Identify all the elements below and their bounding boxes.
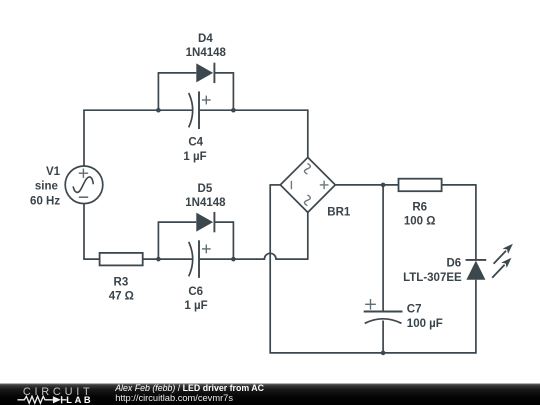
wire D4 branch left vertical: [157, 73, 159, 110]
wire D5 branch top right: [214, 221, 233, 223]
wire down to bridge top corner: [307, 109, 309, 157]
wire D5 branch left vertical: [157, 222, 159, 259]
wire D5 branch top left: [158, 221, 197, 223]
resistor R3: [100, 253, 143, 266]
svg-text:60 Hz: 60 Hz: [30, 196, 60, 208]
BR1 plus mark right: [320, 181, 329, 190]
junction node top-left: [156, 108, 161, 113]
wire LED down to rail: [475, 280, 477, 354]
wire minus vertical down: [269, 184, 271, 353]
wire R3 to C6 left plate: [143, 258, 193, 260]
svg-text:C6: C6: [188, 286, 203, 298]
LED arrow 1: [494, 244, 513, 264]
capacitor C6: [189, 240, 211, 278]
footer logo resistor squiggle: [18, 396, 53, 403]
C4 plus mark: [202, 96, 211, 105]
wire R6 to LED corner: [442, 184, 476, 186]
svg-text:100 µF: 100 µF: [407, 318, 443, 330]
svg-text:Alex Feb (febb) / LED driver f: Alex Feb (febb) / LED driver from AC: [114, 383, 264, 393]
V1 plus mark: [79, 169, 88, 178]
wire D4 branch right vertical: [232, 72, 234, 110]
svg-text:LAB: LAB: [66, 395, 93, 405]
svg-text:C4: C4: [188, 137, 203, 149]
wire C6 right plate to bridge bottom with hop over minus wire: [199, 253, 308, 259]
svg-text:http://circuitlab.com/cevmr7s: http://circuitlab.com/cevmr7s: [115, 393, 233, 403]
junction node mid-left: [156, 257, 161, 262]
diode D4: [196, 63, 214, 83]
footer bar: [0, 384, 540, 405]
capacitor C4: [189, 91, 211, 129]
V1 sine squiggle: [73, 177, 93, 192]
svg-text:1N4148: 1N4148: [186, 47, 227, 59]
BR1 minus mark left: [290, 181, 292, 189]
wire D4 branch top right: [214, 72, 233, 74]
svg-text:C7: C7: [407, 304, 422, 316]
svg-text:sine: sine: [35, 181, 58, 193]
wire C7 bottom: [382, 321, 384, 353]
C6 plus mark: [202, 245, 211, 254]
BR1 ac mark bottom: [304, 195, 310, 206]
junction node plus rail: [381, 183, 386, 188]
svg-text:R3: R3: [114, 276, 129, 288]
wire up to bridge bottom corner: [307, 212, 309, 260]
wire bridge minus stub: [270, 184, 280, 186]
svg-text:BR1: BR1: [327, 207, 351, 219]
svg-text:D5: D5: [198, 183, 213, 195]
wire C7 top: [382, 185, 384, 312]
voltage source V1: [65, 166, 103, 204]
wire bottom rail: [269, 352, 476, 354]
svg-text:V1: V1: [46, 166, 61, 178]
wire top rail to C4 left plate: [83, 109, 192, 111]
wire C4 right plate to bridge column: [199, 109, 308, 111]
footer logo diode: [53, 396, 61, 403]
junction node bottom rail: [381, 351, 386, 356]
junction node top-right: [231, 108, 236, 113]
wire corner down to LED: [475, 184, 477, 260]
svg-text:1 µF: 1 µF: [183, 151, 206, 163]
wire V1 top to top rail: [83, 110, 85, 166]
wire V1 bottom: [83, 204, 85, 260]
wire V1 to R3: [83, 258, 99, 260]
diode D5: [196, 212, 214, 232]
svg-text:100 Ω: 100 Ω: [404, 215, 436, 227]
wire D4 branch top left: [158, 72, 197, 74]
wire bridge plus to R6: [335, 184, 398, 186]
svg-text:LTL-307EE: LTL-307EE: [403, 272, 462, 284]
junction node mid-right: [231, 257, 236, 262]
svg-text:R6: R6: [412, 202, 427, 214]
resistor R6: [399, 179, 442, 192]
LED arrow 2: [492, 258, 511, 278]
svg-text:1 µF: 1 µF: [184, 300, 207, 312]
LED D6: [466, 244, 513, 280]
C7 plus mark: [365, 299, 376, 310]
svg-text:D4: D4: [198, 33, 213, 45]
svg-text:D6: D6: [446, 257, 461, 269]
wire D5 branch right vertical: [232, 221, 234, 259]
svg-text:47 Ω: 47 Ω: [109, 291, 134, 303]
capacitor C7: [364, 299, 403, 323]
svg-text:1N4148: 1N4148: [185, 197, 226, 209]
V1 minus mark: [79, 196, 88, 198]
BR1 ac mark top: [304, 164, 310, 175]
bridge rectifier BR1: [280, 157, 335, 212]
